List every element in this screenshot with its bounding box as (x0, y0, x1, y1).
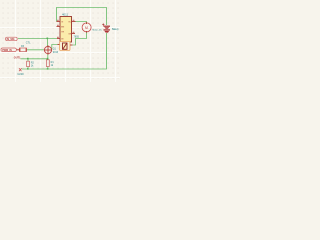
motor terminals (86, 22, 88, 24)
wire label1 rail to IC (18, 38, 57, 40)
netlabel port 1 (6, 37, 18, 41)
wire junction drop to lamp top (47, 39, 49, 47)
IC pin number marks (57, 20, 74, 38)
junction dot D (27, 68, 29, 70)
junction dot B (47, 58, 49, 60)
svg-text:M: M (85, 26, 88, 30)
IC pin 2 left (57, 26, 61, 28)
wire lamp bottom to R1 top (47, 54, 49, 60)
canvas background (0, 0, 120, 82)
svg-text:Motor_DC: Motor_DC (92, 28, 102, 31)
resistor R2 vertical (27, 61, 35, 67)
junction dot E (47, 68, 49, 70)
wire mid rail (21, 58, 49, 60)
svg-text:7805: 7805 (74, 36, 80, 39)
IC pin 5 right (72, 33, 76, 35)
svg-text:TR: TR (61, 31, 64, 33)
lamp/transistor Q1 circle (44, 45, 58, 54)
svg-text:GND: GND (17, 72, 23, 76)
resistor R1 vertical (46, 60, 54, 67)
svg-text:OUT1: OUT1 (14, 57, 21, 60)
IC pin 3 left (57, 38, 60, 40)
battery BT1 (104, 26, 111, 33)
svg-text:IN_SIG: IN_SIG (7, 38, 15, 41)
svg-text:VO: VO (68, 21, 71, 23)
svg-text:GN: GN (68, 33, 72, 35)
svg-text:9013: 9013 (53, 51, 59, 54)
wire R3 to lamp left (27, 49, 45, 51)
wire R2 top drop (27, 59, 29, 61)
IC U1 body (60, 17, 72, 43)
wire top rail VCC (57, 8, 107, 26)
wire bottom ground rail (22, 33, 107, 69)
wire R2 bottom to rail (27, 67, 29, 70)
wire-end X marker (19, 68, 22, 71)
svg-text:CTL: CTL (26, 42, 31, 45)
wire IC pin to motor top (76, 22, 87, 24)
wire motor bottom to IC/fuse (73, 32, 87, 46)
svg-text:Battery: Battery (112, 28, 120, 31)
netlabel port 2 (1, 48, 16, 52)
svg-text:4011: 4011 (62, 12, 68, 16)
IC pin 4 right (72, 21, 76, 23)
junction dot C (27, 58, 29, 60)
wire lamp right to fuse left (52, 45, 58, 50)
motor M1 circle (82, 23, 91, 32)
junction dot A (47, 38, 49, 40)
IC pin 1 left (57, 21, 61, 23)
fuse F1 with selection box (58, 42, 73, 51)
svg-text:EN: EN (61, 26, 64, 28)
battery plus mark (102, 24, 104, 26)
IC pin name texts (61, 21, 72, 40)
resistor R3 horizontal (17, 45, 27, 52)
svg-text:PWM_IN: PWM_IN (2, 49, 12, 52)
wire R1 bottom to rail (47, 67, 49, 70)
